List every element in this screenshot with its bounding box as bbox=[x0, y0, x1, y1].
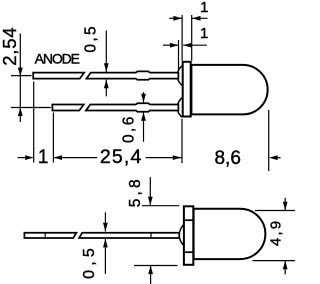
extension line dome bottom (side view) bbox=[253, 260, 296, 262]
extension line flange top (side view) bbox=[142, 205, 179, 207]
dimension line 4,9 bottom bbox=[284, 261, 286, 275]
flange moulding line upper (side view) bbox=[184, 219, 193, 221]
side view lead segment 2 bbox=[79, 233, 179, 238]
anode lead segment 1 (top view) bbox=[33, 73, 84, 79]
side view lead segment 1 bbox=[24, 233, 76, 238]
svg-text:0,5: 0,5 bbox=[82, 24, 99, 53]
dimension line 5,8 top bbox=[149, 177, 151, 205]
extension line flange left edge bbox=[181, 15, 183, 61]
LED epoxy dome body (top view) bbox=[191, 65, 267, 115]
dimension line 5,8 bottom bbox=[150, 266, 152, 284]
svg-text:25,4: 25,4 bbox=[100, 146, 143, 168]
extension line lower lead centre bbox=[11, 107, 51, 109]
svg-text:5,8: 5,8 bbox=[127, 176, 144, 207]
extension line dome top (side view) bbox=[255, 210, 295, 212]
extension line flange bottom (side view) bbox=[134, 265, 178, 267]
extension line lead flare tip bbox=[178, 40, 180, 70]
dimension line 0,5 side top bbox=[104, 212, 106, 231]
dimension line 1 (lead end offset) bbox=[18, 157, 27, 159]
dimension line 2,54 bbox=[19, 33, 21, 122]
dimension line 0,5 bbox=[105, 31, 107, 72]
bottom dimension row: extension line anode lead end bbox=[33, 82, 35, 163]
cathode lead segment 1 (top view) bbox=[52, 105, 83, 111]
extension line flange right edge bbox=[191, 15, 193, 61]
anode lead flare into package (top view) bbox=[178, 66, 182, 85]
cathode lead flare into package (top view) bbox=[178, 98, 182, 117]
svg-text:1: 1 bbox=[200, 25, 208, 42]
side view lead tick bbox=[44, 233, 46, 238]
svg-text:0,6: 0,6 bbox=[120, 114, 137, 143]
extension line upper lead centre bbox=[11, 75, 32, 77]
side view lead tick 2 bbox=[150, 233, 152, 238]
svg-text:0,5: 0,5 bbox=[81, 244, 98, 279]
dimension line 0,5 side bottom bbox=[104, 239, 106, 274]
cathode lead segment 2 with crimp bump (top view) bbox=[86, 103, 178, 111]
dimension line 25,4 bbox=[53, 155, 62, 160]
svg-text:ANODE: ANODE bbox=[35, 50, 80, 66]
dimension line 4,9 top bbox=[284, 198, 286, 211]
dimension line 1 stand-off bbox=[163, 44, 179, 46]
dimension line 0,6 bbox=[143, 92, 145, 102]
dimension line 1 flange thickness bbox=[169, 17, 182, 19]
flange moulding line lower (side view) bbox=[184, 251, 193, 253]
extension line flange left (below) bbox=[181, 119, 183, 163]
LED flange (top view) bbox=[183, 62, 191, 117]
svg-text:4,9: 4,9 bbox=[268, 219, 285, 246]
svg-text:8,6: 8,6 bbox=[214, 148, 240, 169]
anode lead segment 2 with crimp bump (top view) bbox=[86, 71, 178, 79]
svg-text:1: 1 bbox=[38, 147, 49, 168]
outside arrow for 8,6 right bbox=[269, 155, 278, 160]
LED flange (side view) bbox=[184, 206, 193, 264]
svg-text:1: 1 bbox=[200, 0, 208, 16]
extension line cathode lead end bbox=[52, 113, 54, 163]
svg-text:2,54: 2,54 bbox=[0, 27, 20, 66]
extension line dome right (below) bbox=[268, 110, 270, 171]
LED epoxy dome body (side view) bbox=[194, 209, 266, 259]
side view lead flare bbox=[180, 225, 184, 246]
